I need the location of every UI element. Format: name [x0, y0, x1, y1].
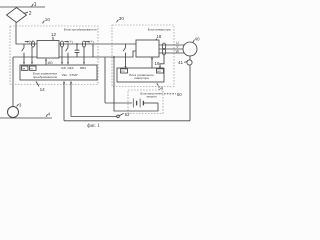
- battery return loop: [114, 57, 158, 111]
- svg-text:12: 12: [51, 32, 57, 37]
- phase line W: [159, 52, 184, 54]
- svg-text:GES: GES: [67, 66, 73, 70]
- svg-text:(+): (+): [68, 40, 72, 44]
- breaker to box19: [123, 44, 125, 66]
- energy storage dashed box 50: [128, 90, 163, 114]
- speed sensor 41: [187, 60, 192, 65]
- phase line V: [159, 48, 183, 50]
- battery positive riser: [104, 57, 106, 103]
- wire rail return: [13, 56, 37, 58]
- battery positive wire: [105, 102, 132, 104]
- capacitor branch: [75, 44, 80, 57]
- breaker switch mid: [66, 44, 68, 62]
- svg-text:Блок преобразователя: Блок преобразователя: [64, 28, 97, 32]
- inverter 18: [136, 40, 159, 57]
- svg-text:52: 52: [125, 112, 130, 117]
- svg-text:30: 30: [119, 16, 125, 21]
- box19 input box right: [157, 69, 164, 73]
- node on DC bus: [113, 56, 115, 58]
- wheel 3: [8, 107, 19, 118]
- svg-text:энергии: энергии: [146, 95, 157, 99]
- node junction: [76, 43, 78, 45]
- svg-text:14: 14: [40, 87, 46, 92]
- svg-text:1: 1: [34, 2, 37, 8]
- current sensor CT3: [82, 41, 85, 47]
- label 14: [36, 81, 39, 86]
- STMP wire: [71, 116, 117, 118]
- svg-text:2: 2: [29, 11, 32, 17]
- svg-text:инвертора: инвертора: [134, 76, 149, 80]
- phase CT lower: [162, 49, 165, 55]
- sensor input box B: [30, 66, 37, 70]
- gate line inverter: [151, 57, 153, 68]
- svg-text:3: 3: [19, 103, 22, 108]
- svg-text:(+): (+): [29, 40, 33, 44]
- svg-text:(+): (+): [89, 40, 93, 44]
- motor 40: [183, 42, 197, 56]
- filter capacitor branch right: [92, 44, 94, 57]
- current sensor CT2: [60, 41, 63, 47]
- svg-text:преобразователя: преобразователя: [33, 75, 57, 79]
- label 3: [17, 104, 19, 106]
- label 4: [46, 114, 47, 117]
- svg-text:40: 40: [194, 36, 200, 41]
- svg-text:10: 10: [45, 17, 51, 22]
- svg-text:19: 19: [155, 61, 160, 66]
- VEL feedback riser: [63, 83, 65, 121]
- wire wheel drop: [12, 57, 14, 107]
- label 12: [52, 37, 54, 40]
- svg-text:ИО: ИО: [48, 61, 53, 65]
- arrow bus right: [85, 41, 88, 43]
- catenary wire 1: [0, 6, 45, 8]
- sensor input box A: [22, 66, 29, 70]
- svg-text:ыл: ыл: [157, 70, 161, 73]
- label 10: [43, 21, 45, 24]
- DC bus negative: [59, 51, 136, 57]
- wire pantograph drop: [16, 23, 37, 45]
- svg-text:фиг. 1: фиг. 1: [87, 124, 100, 129]
- svg-text:VEL: VEL: [62, 73, 68, 77]
- DC bus positive: [59, 43, 136, 45]
- converter 12: [37, 41, 59, 59]
- label 18: [155, 39, 158, 41]
- STMP riser: [70, 83, 72, 116]
- label 40: [193, 40, 194, 43]
- svg-text:50: 50: [177, 92, 182, 97]
- converter unit dashed box 10: [10, 26, 98, 85]
- battery cells: [133, 99, 140, 108]
- phase line U: [159, 44, 184, 46]
- svg-text:STMP: STMP: [69, 73, 77, 77]
- CT1 tap wire: [31, 47, 33, 62]
- svg-text:ил: ил: [121, 70, 124, 73]
- converter control unit 14: [20, 65, 97, 80]
- label 30: [117, 20, 119, 23]
- battery negative wire: [143, 102, 158, 104]
- box19 input box left: [121, 69, 128, 73]
- contactor 52: [117, 115, 120, 118]
- phase CT feedback: [160, 55, 164, 67]
- rail 4: [0, 117, 52, 119]
- current sensor CT1: [31, 41, 34, 47]
- label 50: [164, 93, 176, 95]
- label 41: [184, 61, 187, 64]
- breaker switch left: [22, 44, 24, 62]
- inverter control unit 19: [117, 68, 164, 82]
- svg-text:18: 18: [156, 34, 162, 39]
- speed sensor drop wire: [189, 65, 191, 121]
- label 2: [24, 12, 29, 13]
- CT2 tap wire: [61, 47, 63, 62]
- svg-text:Блок инвертора: Блок инвертора: [148, 27, 171, 31]
- inverter unit dashed box 30: [112, 25, 174, 87]
- label 54: [157, 83, 159, 85]
- svg-text:4: 4: [48, 111, 51, 116]
- svg-text:MB1: MB1: [80, 66, 87, 70]
- phase CT upper: [162, 43, 165, 49]
- arrow current direction left: [25, 41, 28, 43]
- arrow bus left: [64, 41, 67, 43]
- pantograph 2: [7, 8, 27, 23]
- svg-text:41: 41: [178, 60, 184, 65]
- CT3 tap wire: [83, 47, 85, 62]
- svg-text:IAD: IAD: [61, 66, 67, 70]
- gate line to converter: [45, 60, 47, 64]
- label 1: [32, 4, 34, 7]
- VEL bottom wire: [64, 120, 190, 122]
